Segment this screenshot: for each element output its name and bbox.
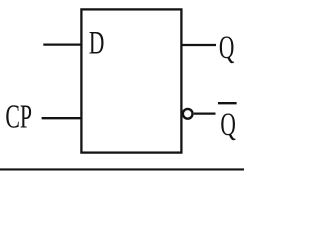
D flip-flop body U1: [81, 9, 181, 152]
wire D input: [43, 43, 81, 45]
wire CP input: [42, 117, 82, 119]
svg-text:Q: Q: [220, 106, 235, 143]
overline of Q-bar: [218, 102, 237, 104]
wire Q-bar output: [194, 112, 216, 114]
svg-text:D: D: [89, 25, 104, 62]
bottom rule: [0, 168, 244, 170]
svg-text:CP: CP: [5, 99, 32, 136]
wire Q output: [181, 44, 216, 46]
svg-text:Q: Q: [219, 29, 234, 66]
inversion bubble on Q-bar output: [183, 109, 193, 119]
